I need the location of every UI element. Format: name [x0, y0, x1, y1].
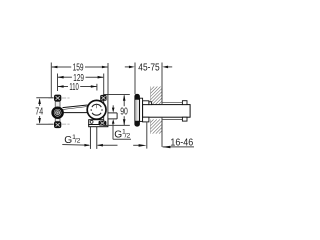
svg-text:159: 159: [73, 63, 84, 74]
16-46 underline: [163, 146, 194, 148]
wall hatching lower: [150, 119, 162, 133]
left bracket neck upper: [55, 101, 60, 107]
74 ext lines: [36, 97, 53, 99]
16-46 arrows: [139, 144, 147, 147]
left bracket bottom screw: [54, 121, 61, 128]
inner broken circle side dashes: [90, 109, 92, 111]
wall face / 45-75+16-46 right ext: [161, 63, 163, 105]
45-75 arrow tails: [125, 66, 131, 68]
dim line 110: [58, 86, 68, 88]
left G1/2 leader/underline: [62, 144, 86, 147]
svg-text:G: G: [64, 135, 72, 146]
right stub arrow tail: [98, 144, 118, 146]
ext line 129 right: [103, 74, 105, 95]
bottom-right trim screw: [99, 121, 107, 126]
74 dim line: [39, 99, 41, 106]
90 ext lines: [108, 94, 130, 96]
svg-text:90: 90: [120, 107, 128, 118]
stub dim arrows at x113: [112, 108, 115, 113]
svg-text:16-46: 16-46: [170, 137, 193, 148]
right G1/2 underline: [113, 138, 131, 140]
45-75 arrows: [129, 66, 135, 69]
centerline dashes through bracket screws: [48, 98, 69, 124]
side view: bottom boss: [143, 117, 149, 122]
front view: right mounting plate: [104, 95, 108, 126]
svg-text:110: 110: [69, 82, 79, 93]
center tick: [96, 104, 98, 109]
ext line 159 left: [50, 63, 52, 98]
dim line 159: [52, 66, 71, 68]
inlet union ring: [53, 108, 63, 118]
mixer body circle: [87, 100, 106, 119]
inner broken circle top arc: [92, 104, 101, 107]
G1/2 inlet stub going down: [90, 127, 96, 149]
side view: bottom tab: [182, 117, 187, 121]
wall hatching upper: [150, 87, 162, 105]
ext line 110 right: [96, 84, 98, 91]
side view: top tab: [182, 101, 187, 105]
159: [52, 66, 58, 69]
svg-text:/2: /2: [75, 138, 81, 145]
45-75 ext left: [134, 63, 136, 95]
G1/2 outlet stub (right, front view): [108, 113, 117, 119]
G1/2 stub dim leader (right): [112, 105, 114, 110]
74: [38, 98, 41, 104]
inner broken circle bottom arc: [92, 113, 101, 115]
129: [58, 76, 64, 79]
ext line 159 right: [107, 63, 109, 95]
16-46 left arrow tail: [133, 144, 141, 146]
dim line 129: [58, 76, 72, 78]
top-right trim screw: [100, 95, 106, 101]
wall inner face line: [149, 87, 151, 134]
left G1/2 arrow: [84, 144, 90, 147]
ext line 129/110 left: [57, 74, 59, 92]
svg-text:74: 74: [35, 107, 43, 118]
arrowheads: [38, 66, 170, 149]
right stub arrow: [97, 144, 103, 147]
side view: body: [143, 105, 191, 118]
left bracket top screw: [54, 95, 61, 102]
16-46 left ext: [146, 122, 148, 149]
svg-text:/2: /2: [125, 133, 131, 140]
small circle on lower block: [90, 120, 93, 123]
side view: mounting plate: [140, 98, 143, 121]
svg-text:45-75: 45-75: [138, 62, 160, 73]
front view: arm from inlet bracket to mixer body: [63, 105, 90, 113]
90: [123, 95, 126, 101]
front view: lower connection block: [89, 120, 108, 127]
side view: top boss: [143, 101, 152, 105]
90 dim line: [123, 95, 125, 106]
left bracket neck lower: [55, 118, 60, 121]
110: [58, 85, 64, 88]
side view: sleeve lines to tabs: [162, 102, 182, 119]
side view: flange disc: [135, 94, 140, 126]
